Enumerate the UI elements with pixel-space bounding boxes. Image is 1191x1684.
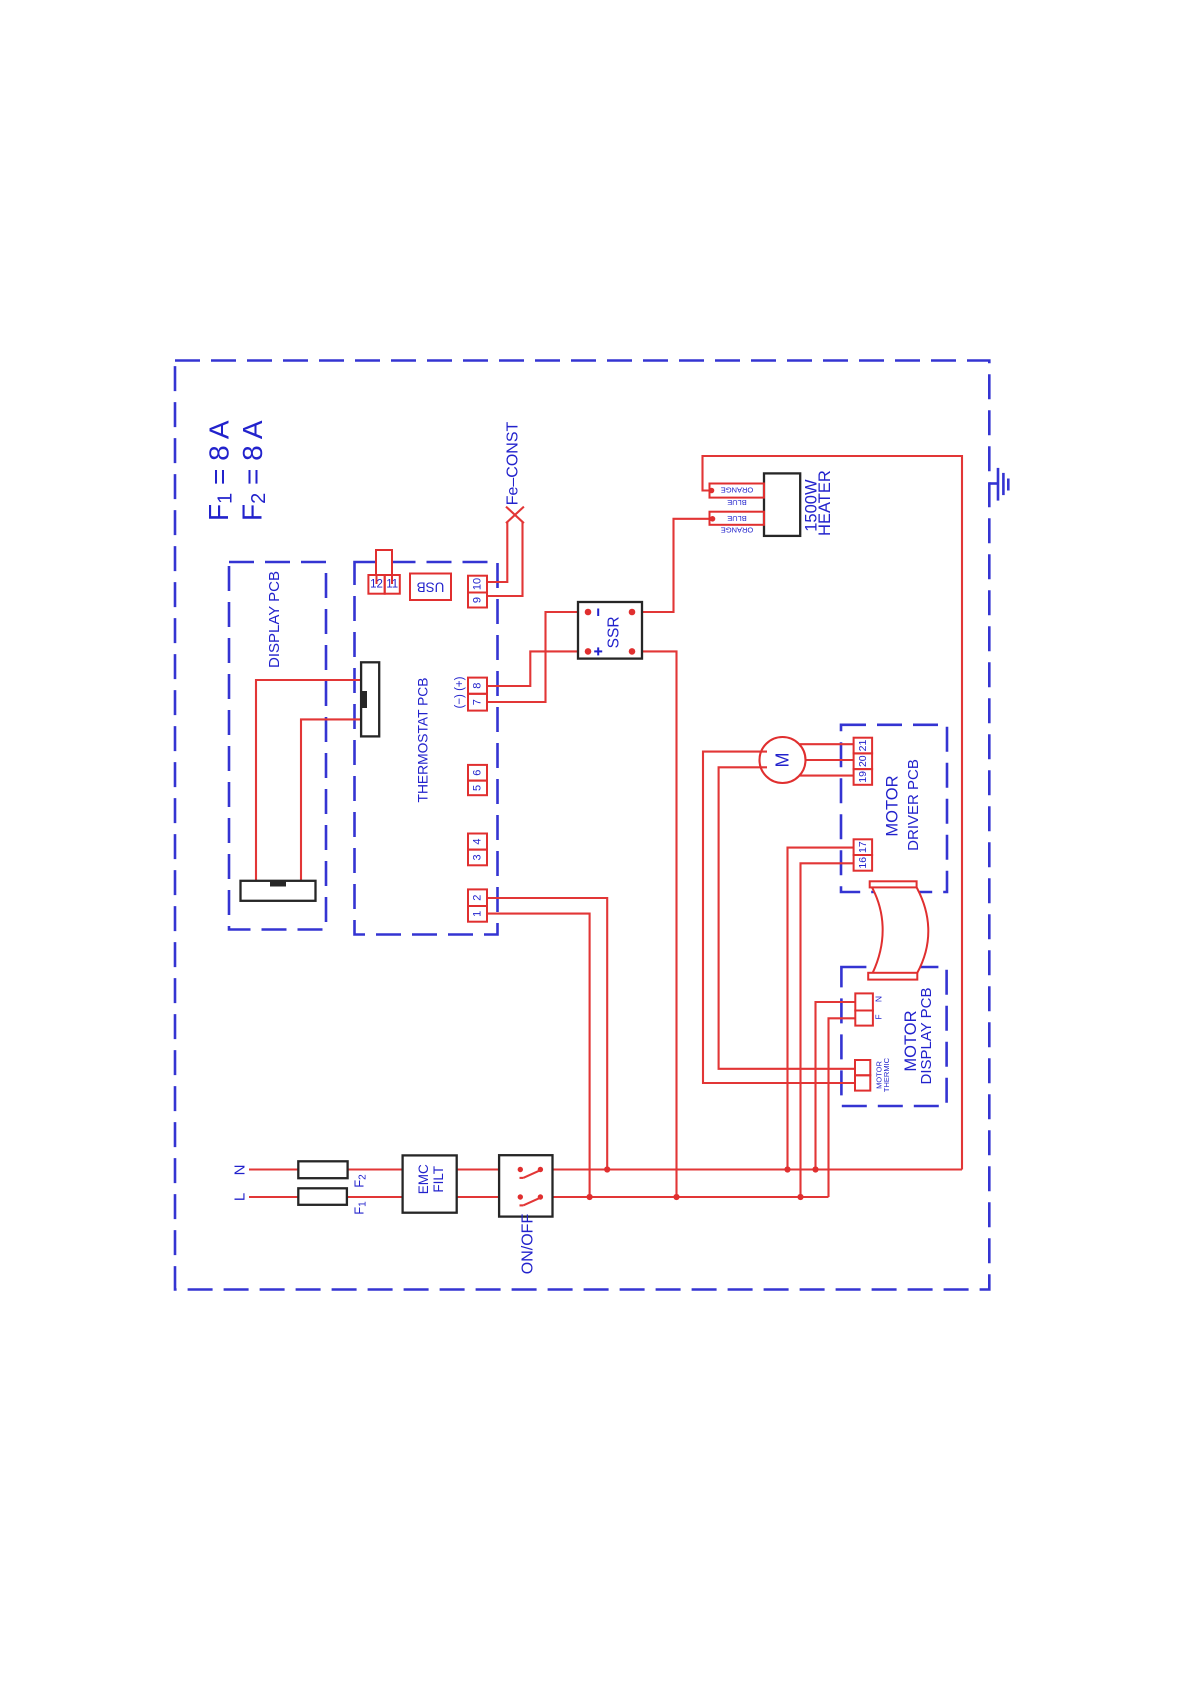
svg-text:N: N xyxy=(874,996,884,1002)
EMC filter xyxy=(403,1155,457,1212)
on/off switch S1 xyxy=(499,1155,552,1274)
svg-text:19: 19 xyxy=(857,771,869,783)
wire pin2 to neutral bus xyxy=(487,898,607,1170)
connector pins 19 20 21 xyxy=(854,738,873,785)
wire pin16 to line bus xyxy=(801,863,854,1197)
thermostat PCB enclosure xyxy=(355,562,498,935)
svg-text:2: 2 xyxy=(472,895,484,901)
wire pin8 to SSR plus xyxy=(486,651,578,686)
wire motor to pin21 xyxy=(800,743,854,745)
wire pin9 to Fe-CONST xyxy=(487,522,523,597)
svg-text:9: 9 xyxy=(472,597,484,603)
svg-text:(−) (+): (−) (+) xyxy=(454,676,466,708)
wire pin10 to Fe-CONST xyxy=(487,522,507,583)
svg-text:8: 8 xyxy=(472,683,484,689)
wire EMC to switch N xyxy=(457,1168,521,1170)
svg-text:17: 17 xyxy=(857,841,869,853)
svg-text:20: 20 xyxy=(857,755,869,767)
motor M xyxy=(760,737,806,783)
connector pins 7 8 xyxy=(468,678,487,711)
svg-text:FILT: FILT xyxy=(431,1166,446,1193)
svg-text:ORANGE: ORANGE xyxy=(721,525,754,534)
svg-text:THERMOSTAT PCB: THERMOSTAT PCB xyxy=(416,678,431,803)
svg-text:BLUE: BLUE xyxy=(727,498,747,507)
motor driver PCB label xyxy=(883,759,922,851)
connector USB xyxy=(410,574,451,601)
svg-text:16: 16 xyxy=(857,857,869,869)
svg-text:MOTOR: MOTOR xyxy=(883,775,901,836)
wire fuse F2 to EMC xyxy=(348,1168,403,1170)
junction dots line bus xyxy=(587,1194,804,1200)
svg-text:6: 6 xyxy=(472,770,484,776)
heater lug blue bottom xyxy=(710,512,765,535)
connector pins 3 4 xyxy=(468,834,487,866)
svg-text:5: 5 xyxy=(472,785,484,791)
wire motor to pin20 xyxy=(806,759,854,761)
svg-text:DISPLAY PCB: DISPLAY PCB xyxy=(918,988,935,1085)
wire motor to thermic lower xyxy=(703,752,855,1083)
motor display PCB label xyxy=(902,988,935,1085)
outer enclosure dashed border xyxy=(175,361,989,1290)
svg-text:EMC: EMC xyxy=(416,1164,431,1194)
connector pins 12 11 xyxy=(368,575,399,594)
svg-text:11: 11 xyxy=(386,579,398,591)
svg-text:10: 10 xyxy=(472,578,484,590)
wire pin7 to SSR minus xyxy=(486,612,578,702)
wire SSR to heater lug xyxy=(642,519,713,612)
svg-text:F: F xyxy=(874,1014,884,1019)
svg-text:DRIVER PCB: DRIVER PCB xyxy=(905,759,922,851)
wire display module to connector A xyxy=(256,680,361,881)
wire EMC to switch L xyxy=(457,1196,521,1198)
svg-text:L: L xyxy=(232,1193,249,1201)
motor driver PCB enclosure xyxy=(841,725,947,892)
wire F pin to line bus xyxy=(829,1018,856,1197)
wire fuse F1 to EMC xyxy=(347,1196,403,1198)
terminal L xyxy=(232,1193,299,1201)
svg-text:N: N xyxy=(232,1165,249,1176)
header above pins 12 11 xyxy=(376,550,392,584)
svg-text:1: 1 xyxy=(472,911,484,917)
svg-text:ORANGE: ORANGE xyxy=(721,486,754,495)
line bus wire xyxy=(540,1196,828,1198)
svg-text:7: 7 xyxy=(472,699,484,705)
wire N pin to neutral bus xyxy=(816,1002,856,1170)
connector motor thermic xyxy=(855,1057,891,1092)
wire display module to connector B xyxy=(301,719,361,881)
display connector on thermostat PCB xyxy=(361,662,379,736)
fuse F2 xyxy=(298,1161,368,1187)
svg-text:SSR: SSR xyxy=(605,616,622,648)
svg-text:4: 4 xyxy=(472,838,484,844)
connector F N xyxy=(855,993,883,1025)
svg-text:Fe–CONST: Fe–CONST xyxy=(505,421,522,505)
svg-text:F2 = 8 A: F2 = 8 A xyxy=(237,420,271,521)
svg-text:21: 21 xyxy=(857,740,869,752)
connector pins 16 17 xyxy=(854,839,873,870)
svg-text:USB: USB xyxy=(417,580,445,595)
wire heater lug to neutral riser xyxy=(703,456,963,1170)
svg-text:BLUE: BLUE xyxy=(727,514,747,523)
wire pin17 to neutral bus xyxy=(788,848,854,1170)
svg-text:THERMIC: THERMIC xyxy=(882,1057,891,1092)
svg-text:12: 12 xyxy=(370,579,383,591)
svg-text:ON/OFF: ON/OFF xyxy=(520,1214,537,1275)
motor display PCB enclosure xyxy=(841,967,946,1106)
SSR U1 xyxy=(578,602,642,659)
svg-text:DISPLAY PCB: DISPLAY PCB xyxy=(266,571,283,668)
heater lug orange top xyxy=(709,484,764,508)
wire motor to thermic upper xyxy=(719,767,855,1069)
display PCB enclosure xyxy=(229,562,326,930)
svg-text:M: M xyxy=(773,753,793,768)
connector pins 5 6 xyxy=(468,765,487,795)
ribbon cable xyxy=(868,881,928,979)
display module xyxy=(241,881,316,901)
neutral bus wire xyxy=(540,1168,962,1170)
junction dots neutral bus xyxy=(604,1166,819,1172)
ground xyxy=(989,468,1008,501)
wire motor to pin19 xyxy=(800,775,854,777)
node Fe-CONST xyxy=(505,421,524,523)
wire SSR to line bus xyxy=(642,651,677,1197)
wire pin1 to line bus xyxy=(487,914,590,1197)
connector pins 1 2 xyxy=(468,889,487,921)
svg-text:HEATER: HEATER xyxy=(816,470,834,536)
svg-text:F1 = 8 A: F1 = 8 A xyxy=(203,420,237,521)
svg-text:3: 3 xyxy=(472,854,484,860)
terminal N xyxy=(232,1165,299,1176)
fuse F1 xyxy=(298,1188,368,1214)
1500W heater xyxy=(764,470,834,536)
connector pins 9 10 xyxy=(468,576,487,608)
